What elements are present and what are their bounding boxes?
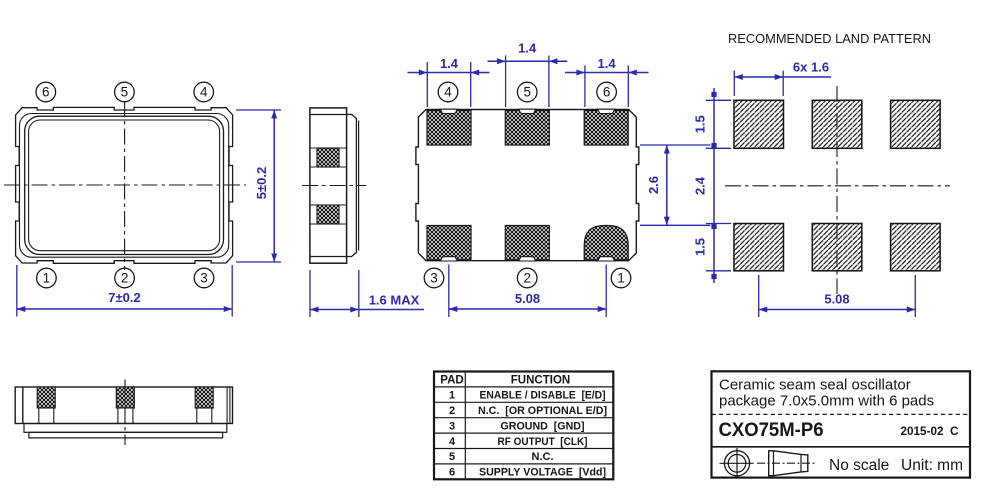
pin 6 label circle (36, 82, 56, 102)
land 1 (top-left, hatched) (734, 100, 784, 148)
pad 6 (bottom view, crosshatched) (584, 111, 628, 146)
dimension 1.6 MAX (thickness) (310, 270, 424, 317)
pin 1 label circle (bottom view) (611, 268, 631, 288)
svg-text:1.4: 1.4 (518, 41, 537, 56)
front view body (15, 387, 232, 424)
horizontal centerline (top view) (4, 184, 246, 186)
dimension 5.08 (pad pitch, bottom view) (449, 265, 606, 318)
svg-text:1.5: 1.5 (693, 115, 708, 133)
svg-text:FUNCTION: FUNCTION (511, 374, 570, 386)
table row 6 (449, 467, 606, 479)
dimension 1.4 (pad 4 width) (408, 56, 490, 107)
side view ceramic body (310, 108, 347, 263)
scale and unit text (829, 457, 963, 474)
land 3 (top-right, hatched) (891, 100, 941, 148)
pin 6 label circle (bottom view) (597, 82, 617, 102)
svg-text:2.6: 2.6 (646, 176, 661, 194)
table row 5 (449, 451, 554, 463)
svg-text:ENABLE / DISABLE [E/D]: ENABLE / DISABLE [E/D] (480, 390, 606, 402)
svg-text:RECOMMENDED LAND PATTERN: RECOMMENDED LAND PATTERN (728, 31, 931, 46)
package lid inner rounded rect (29, 120, 220, 251)
svg-text:3: 3 (200, 271, 208, 286)
svg-text:5: 5 (523, 85, 531, 100)
package body outline (top view) (16, 107, 233, 263)
svg-text:No scale: No scale (829, 457, 889, 474)
pin 2 label circle (115, 268, 135, 288)
package lid outer rounded rect (25, 116, 224, 254)
svg-text:1.4: 1.4 (598, 56, 617, 71)
castellation notches on bottom edge (bottom view) (440, 257, 615, 261)
svg-text:Unit: mm: Unit: mm (901, 457, 963, 474)
svg-text:1: 1 (43, 271, 51, 286)
svg-text:5: 5 (449, 451, 455, 463)
side view upper castellation pad (310, 148, 347, 167)
svg-text:5: 5 (121, 85, 129, 100)
svg-text:1: 1 (617, 271, 625, 286)
land 5 (bottom-middle, hatched) (812, 224, 862, 271)
side view lid (seam sealed) (347, 114, 359, 256)
svg-text:package 7.0x5.0mm with 6 pads: package 7.0x5.0mm with 6 pads (719, 393, 934, 410)
vertical centerline (top view) (124, 101, 126, 270)
front view left end line (22, 387, 24, 424)
pad 2 (bottom view, crosshatched) (505, 226, 549, 261)
pin 5 label circle (bottom view) (517, 82, 537, 102)
projection target symbol (720, 448, 754, 479)
dimensions 1.5 / 2.4 / 1.5 (land rows, left side) (693, 88, 732, 283)
dimension 2.6 (pad row gap, bottom view) (640, 145, 711, 225)
side view horizontal centerline (302, 185, 366, 187)
front view pad 2 (crosshatched) (116, 387, 134, 424)
svg-text:4: 4 (200, 85, 208, 100)
title description text (719, 377, 934, 410)
horizontal centerline (land pattern) (725, 185, 950, 187)
front view pad 1 (crosshatched) (37, 387, 55, 424)
front view lid step 2 (29, 432, 223, 438)
table row 4 (449, 436, 588, 448)
svg-text:2: 2 (121, 271, 129, 286)
svg-text:4: 4 (444, 85, 452, 100)
vertical centerline (land pattern) (836, 86, 838, 294)
svg-text:1.6 MAX: 1.6 MAX (369, 293, 420, 308)
svg-text:2.4: 2.4 (693, 176, 708, 195)
pin 4 label circle (194, 82, 214, 102)
svg-text:7±0.2: 7±0.2 (108, 290, 140, 305)
title block frame (712, 371, 971, 477)
svg-text:2: 2 (449, 405, 455, 417)
svg-text:1.4: 1.4 (440, 56, 459, 71)
table header PAD / FUNCTION (440, 374, 570, 386)
land 6 (bottom-right, hatched) (891, 224, 941, 271)
svg-text:4: 4 (449, 436, 456, 448)
table row 1 (449, 390, 606, 402)
front view lid step 1 (24, 424, 227, 433)
pin 3 label circle (bottom view) (424, 268, 444, 288)
table row 3 (449, 420, 585, 432)
svg-text:1.5: 1.5 (693, 238, 708, 256)
pin 3 label circle (194, 268, 214, 288)
svg-text:CXO75M-P6: CXO75M-P6 (719, 419, 824, 441)
pad 5 (bottom view, crosshatched) (505, 111, 549, 146)
pin 2 label circle (bottom view) (517, 268, 537, 288)
castellation notches on top edge (bottom view) (440, 109, 615, 113)
svg-text:N.C.: N.C. (532, 451, 554, 463)
dimension 6x 1.6 (land width) (734, 60, 831, 97)
projection cone symbol (757, 451, 815, 476)
front view pad 3 (crosshatched) (195, 387, 213, 424)
pad 1 (bottom view, dome shaped, crosshatched) (584, 226, 628, 261)
table row 2 (449, 405, 607, 417)
pin 1 label circle (37, 268, 57, 288)
svg-text:Ceramic seam seal oscillator: Ceramic seam seal oscillator (719, 377, 911, 394)
pad 4 (bottom view, crosshatched) (427, 111, 471, 146)
svg-text:PAD: PAD (440, 374, 463, 386)
svg-text:6: 6 (42, 85, 50, 100)
svg-text:5.08: 5.08 (515, 291, 540, 306)
land 4 (bottom-left, hatched) (734, 224, 784, 271)
pad 3 (bottom view, crosshatched) (427, 226, 471, 261)
pin 5 label circle (115, 82, 135, 102)
svg-text:RF OUTPUT [CLK]: RF OUTPUT [CLK] (498, 436, 588, 448)
svg-text:1: 1 (449, 390, 455, 402)
side view lower castellation pad (310, 205, 347, 224)
front view right end lines (227, 387, 230, 424)
dimension 1.4 (pad 5 width) (488, 41, 568, 108)
svg-text:3: 3 (430, 271, 438, 286)
svg-text:SUPPLY VOLTAGE [Vdd]: SUPPLY VOLTAGE [Vdd] (479, 467, 606, 479)
svg-text:3: 3 (449, 420, 455, 432)
svg-text:6: 6 (603, 85, 611, 100)
svg-text:6x 1.6: 6x 1.6 (793, 60, 829, 75)
package seam ring line (20, 114, 229, 258)
dimension 1.4 (pad 6 width) (565, 56, 649, 107)
svg-text:6: 6 (449, 467, 455, 479)
pin 4 label circle (bottom view) (438, 82, 458, 102)
land 2 (top-middle, hatched) (812, 100, 862, 148)
dimension 5±0.2 (overall height) (236, 110, 281, 262)
package body outline (bottom view) (416, 110, 639, 261)
front view vertical centerline (124, 380, 126, 446)
svg-text:5±0.2: 5±0.2 (254, 167, 269, 199)
svg-text:GROUND [GND]: GROUND [GND] (501, 420, 585, 432)
dimension 5.08 (land pitch) (759, 275, 916, 317)
svg-text:2015-02 C: 2015-02 C (901, 426, 959, 438)
svg-text:5.08: 5.08 (824, 292, 849, 307)
dimension 7±0.2 (overall width) (17, 265, 232, 317)
svg-text:N.C. [OR OPTIONAL E/D]: N.C. [OR OPTIONAL E/D] (478, 405, 607, 417)
svg-text:2: 2 (523, 271, 531, 286)
table grid (434, 372, 613, 480)
